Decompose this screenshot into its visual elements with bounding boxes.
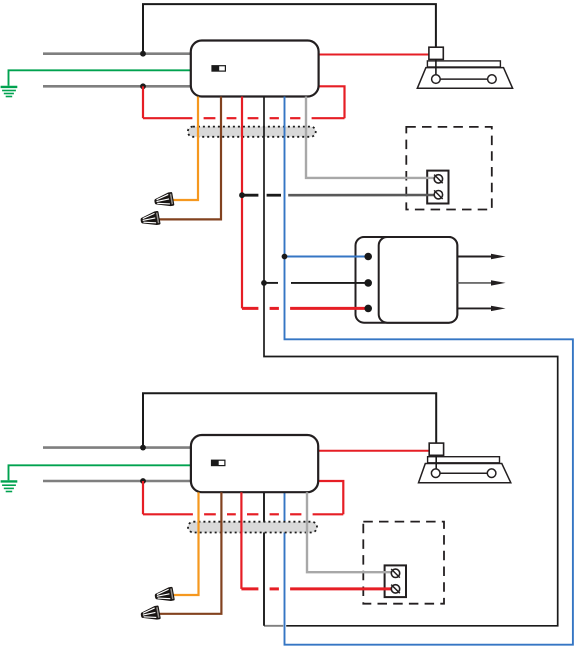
dimmer module U3 bbox=[191, 435, 318, 492]
fixture junction box bbox=[429, 443, 443, 455]
wire: brown (bottom) bbox=[159, 492, 221, 614]
fixture body bbox=[417, 68, 512, 89]
fixture lamp line bbox=[440, 472, 487, 474]
junction node C2 bbox=[140, 478, 146, 484]
wire: orange (bottom) bbox=[173, 492, 199, 595]
output arrow 3 bbox=[457, 307, 496, 309]
fixture lampholder 2 bbox=[488, 75, 497, 84]
U2 terminal pin 2 bbox=[364, 279, 372, 287]
wire: orange (top) bbox=[173, 97, 198, 201]
wire: gray neutral (bottom) bbox=[43, 480, 191, 483]
screw terminal TB1-1 bbox=[434, 175, 442, 183]
U2 terminal pin 1 bbox=[364, 253, 372, 261]
dimmer switch icon bbox=[212, 66, 219, 71]
mounting strip (hatched) top bbox=[188, 127, 316, 137]
wire: black feed loop (top circuit) bbox=[143, 4, 436, 54]
wire: red to wallbox terminal (bottom) bbox=[240, 492, 242, 589]
junction node A2 bbox=[140, 83, 146, 89]
fixture lead wire bbox=[435, 455, 437, 469]
wire nut WN2 bbox=[140, 211, 161, 228]
wire: dark gray to wallbox terminal 2 (top) bbox=[242, 194, 258, 197]
wire: blue to power pack terminal 1 bbox=[285, 256, 369, 258]
ground symbol (top) bbox=[1, 86, 18, 88]
power pack module U2 bbox=[356, 237, 458, 323]
terminal block TB2 bbox=[385, 565, 406, 597]
fixture junction box bbox=[429, 47, 443, 59]
terminal block TB1 bbox=[427, 171, 448, 204]
U2 terminal pin 3 bbox=[364, 305, 372, 313]
wire: red dimmed hot vertical (top) bbox=[241, 97, 243, 309]
wire: black feed loop (bottom circuit) bbox=[143, 393, 436, 447]
fixture lamp line bbox=[440, 78, 487, 80]
fixture lampholder 1 bbox=[431, 469, 440, 478]
dimmer module U1 bbox=[191, 41, 319, 97]
wire: red switched leg to fixture (top) bbox=[319, 54, 429, 56]
dimmer switch icon (bottom) bbox=[212, 460, 219, 465]
wire nut WN3 bbox=[154, 587, 175, 604]
output arrow 2 bbox=[457, 282, 496, 284]
ground symbol (bottom) bbox=[1, 480, 18, 482]
wire: gray neutral (top) bbox=[43, 85, 191, 88]
wire: gray hot supply (top) bbox=[43, 52, 191, 55]
junction node C1 bbox=[140, 445, 146, 451]
junction node B2 bbox=[282, 254, 288, 260]
wire: red jumper loop (top) bbox=[142, 86, 144, 118]
wire: blue long loop linking both circuits bbox=[285, 97, 573, 645]
wire: gray hot supply (bottom) bbox=[43, 446, 191, 449]
wallbox location (dashed) bottom bbox=[363, 522, 444, 604]
screw terminal TB1-2 bbox=[434, 191, 442, 199]
wire: black to power pack terminal 2 bbox=[264, 282, 278, 284]
screw terminal TB2-1 bbox=[391, 569, 399, 577]
wallbox location (dashed) top bbox=[406, 127, 492, 210]
junction node B3 bbox=[239, 192, 245, 198]
junction node A1 bbox=[140, 51, 146, 57]
fixture mounting bar bbox=[428, 457, 500, 463]
wire nut WN1 bbox=[153, 192, 174, 209]
fixture lampholder 1 bbox=[432, 75, 441, 84]
mounting strip (hatched) bottom bbox=[188, 522, 317, 533]
wire: black vertical (bottom circuit) bbox=[263, 492, 265, 626]
junction node B1 bbox=[261, 280, 267, 286]
fixture lead wire bbox=[435, 59, 437, 74]
wire: light gray to wallbox terminal 1 (bottom) bbox=[307, 492, 391, 572]
wire: gray stub of black loop (bottom) bbox=[264, 625, 283, 627]
fixture mounting bar bbox=[427, 61, 500, 67]
wire: brown (top) bbox=[158, 97, 221, 220]
wire: green ground (bottom) bbox=[9, 465, 191, 480]
fixture lampholder 2 bbox=[487, 469, 496, 478]
screw terminal TB2-2 bbox=[391, 585, 399, 593]
output arrow 1 bbox=[457, 256, 496, 258]
fixture body bbox=[419, 464, 511, 483]
wire: red to power pack terminal 3 bbox=[242, 307, 258, 310]
wire: light gray to wallbox terminal 1 (top) bbox=[306, 97, 434, 178]
wire: red switched leg to fixture (bottom) bbox=[318, 450, 429, 452]
wire: red jumper loop (bottom) bbox=[142, 481, 144, 514]
wire: black long loop to lower circuit bbox=[264, 97, 558, 626]
wire nut WN4 bbox=[140, 605, 161, 622]
wire: green ground (top) bbox=[9, 70, 191, 85]
